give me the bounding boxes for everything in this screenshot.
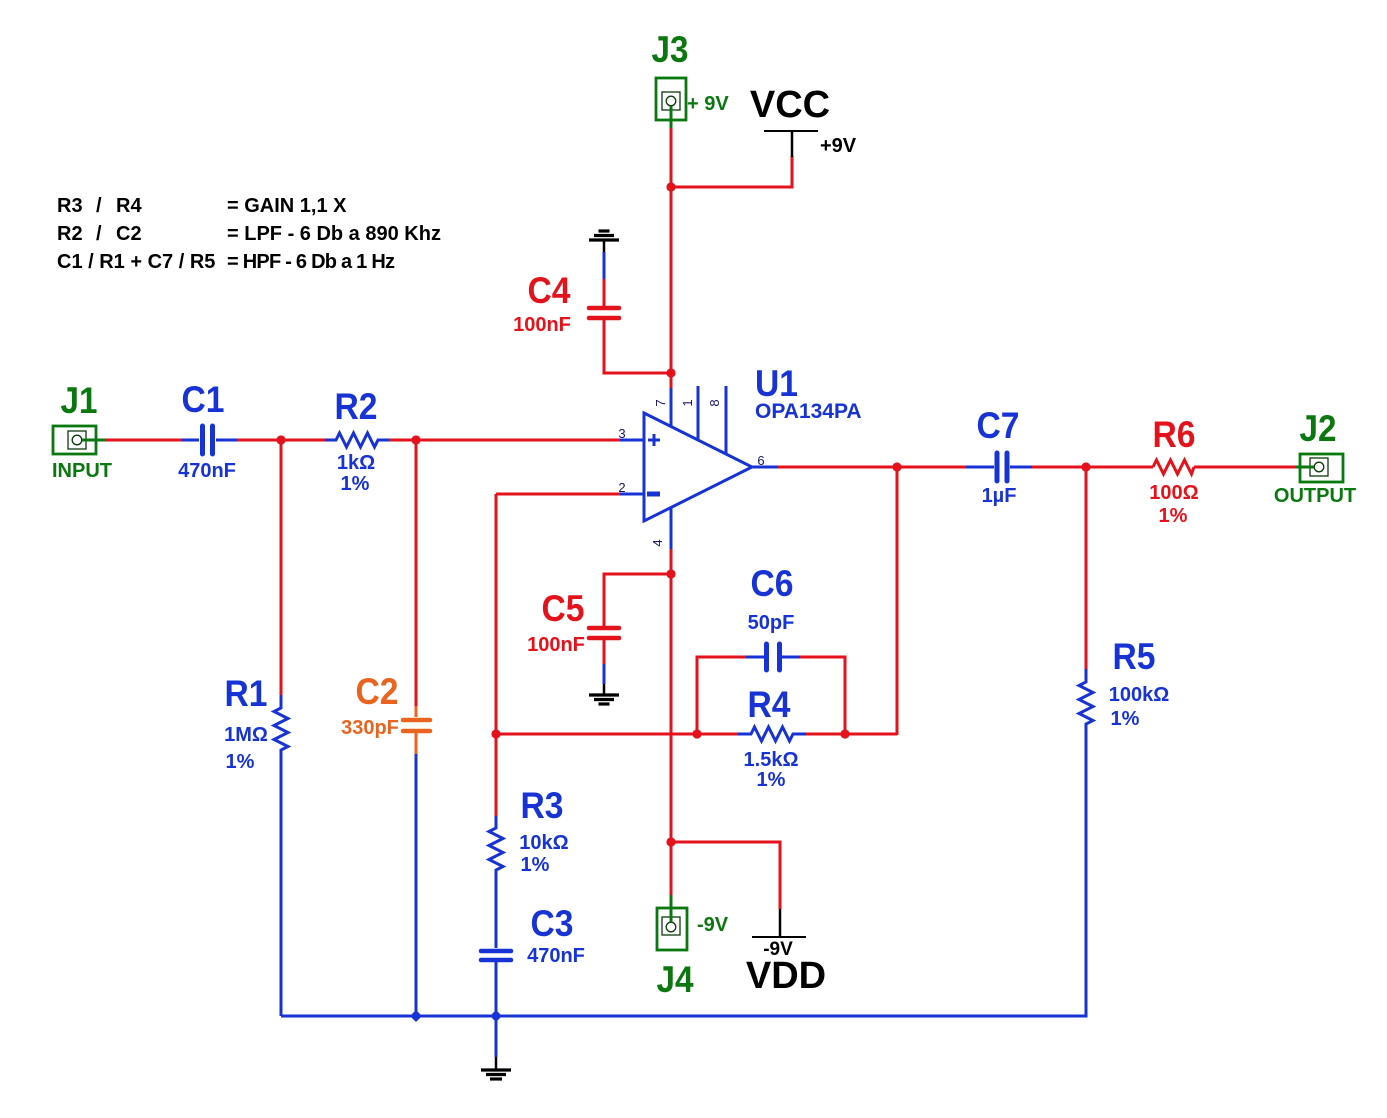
wire C6 loop left: [697, 657, 746, 734]
svg-text:1kΩ: 1kΩ: [337, 452, 375, 474]
svg-text:R4: R4: [748, 684, 791, 725]
wire VCC branch to +9V symbol: [671, 156, 792, 187]
svg-text:10kΩ: 10kΩ: [519, 832, 568, 854]
svg-text:3: 3: [618, 426, 625, 441]
svg-text:1%: 1%: [1159, 505, 1188, 527]
op-amp U1: [618, 363, 861, 549]
capacitor C7: [966, 405, 1032, 507]
wire C4 top stem: [603, 279, 606, 307]
wire C5 bottom stem: [603, 639, 606, 664]
svg-text:1: 1: [680, 399, 695, 406]
svg-text:C1 / R1 + C7 / R5: C1 / R1 + C7 / R5: [57, 251, 215, 273]
svg-text:2: 2: [618, 480, 625, 495]
wire R5 branch top: [1085, 467, 1088, 669]
resistor R5: [1079, 636, 1169, 736]
wire gnd-C4 blue segment: [603, 252, 606, 279]
svg-text:INPUT: INPUT: [52, 460, 112, 482]
wire VCC column: [670, 128, 673, 374]
svg-text:1µF: 1µF: [982, 485, 1017, 507]
svg-text:-9V: -9V: [697, 914, 729, 936]
wire R2 to op-amp pin3: [389, 439, 621, 442]
wire ground bottom bus: [281, 736, 1086, 1016]
svg-text:C7: C7: [977, 405, 1020, 446]
svg-text:1%: 1%: [521, 854, 550, 876]
svg-text:7: 7: [653, 399, 668, 406]
capacitor C3: [481, 903, 585, 1016]
svg-text:= GAIN 1,1 X: = GAIN 1,1 X: [227, 195, 347, 217]
junction dots red: [276, 182, 1090, 846]
svg-text:C5: C5: [542, 588, 585, 629]
svg-text:VDD: VDD: [746, 955, 826, 997]
svg-text:1%: 1%: [226, 751, 255, 773]
ground above C4: [589, 231, 671, 373]
svg-text:R4: R4: [116, 195, 142, 217]
wire op-amp output: [778, 466, 966, 469]
svg-text:R3: R3: [57, 195, 83, 217]
wire inverting input pin2: [496, 493, 620, 496]
svg-text:100kΩ: 100kΩ: [1109, 684, 1170, 706]
resistor R4: [738, 684, 806, 791]
svg-text:J1: J1: [61, 380, 98, 421]
power symbol VDD -9V: [746, 909, 826, 997]
wire feedback column: [495, 494, 498, 816]
svg-text:OUTPUT: OUTPUT: [1274, 485, 1356, 507]
svg-text:50pF: 50pF: [748, 612, 795, 634]
wire C1 to R2: [237, 439, 325, 442]
svg-text:J2: J2: [1300, 408, 1337, 449]
svg-text:C4: C4: [528, 270, 571, 311]
svg-text:1.5kΩ: 1.5kΩ: [744, 749, 799, 771]
wire C7 to R6: [1032, 466, 1153, 469]
svg-text:C3: C3: [531, 903, 574, 944]
svg-text:/: /: [96, 223, 102, 245]
wire C6 loop right: [800, 657, 845, 734]
wire pin7 red stub: [670, 373, 673, 388]
svg-text:VCC: VCC: [750, 84, 830, 126]
svg-text:100Ω: 100Ω: [1149, 482, 1198, 504]
connector J4: [657, 895, 729, 1000]
svg-text:C1: C1: [182, 379, 225, 420]
svg-text:4: 4: [650, 539, 665, 546]
svg-text:J4: J4: [657, 959, 694, 1000]
wire C5 connect: [604, 574, 671, 627]
wire feedback horizontal right: [806, 733, 897, 736]
svg-text:R1: R1: [225, 673, 268, 714]
capacitor C6: [746, 563, 800, 670]
svg-text:1%: 1%: [757, 769, 786, 791]
svg-text:330pF: 330pF: [341, 717, 399, 739]
svg-text:/: /: [96, 195, 102, 217]
svg-text:R2: R2: [57, 223, 83, 245]
svg-text:8: 8: [707, 399, 722, 406]
svg-text:R5: R5: [1113, 636, 1156, 677]
svg-text:J3: J3: [652, 29, 689, 70]
connector J3: [652, 29, 730, 128]
svg-text:1%: 1%: [1111, 708, 1140, 730]
wire VDD branch: [671, 842, 780, 909]
capacitor C4: [513, 270, 619, 336]
ground below C5: [589, 684, 619, 704]
wire R6 to J2: [1194, 466, 1296, 469]
svg-text:OPA134PA: OPA134PA: [755, 400, 862, 423]
svg-text:100nF: 100nF: [513, 314, 571, 336]
svg-text:C2: C2: [356, 671, 399, 712]
svg-text:+ 9V: + 9V: [687, 93, 729, 115]
wire pin4 to J4: [670, 549, 673, 895]
svg-text:C2: C2: [116, 223, 142, 245]
svg-text:1MΩ: 1MΩ: [224, 724, 268, 746]
svg-text:= HPF - 6 Db a 1 Hz: = HPF - 6 Db a 1 Hz: [227, 251, 395, 273]
connector J1: [52, 380, 112, 482]
svg-text:R6: R6: [1153, 414, 1196, 455]
annotation text block: [57, 195, 441, 273]
wire output node to feedback: [896, 467, 899, 735]
resistor R3: [489, 785, 569, 948]
resistor R2: [325, 386, 389, 495]
capacitor C2: [341, 671, 430, 1016]
svg-text:= LPF - 6 Db a 890 Khz: = LPF - 6 Db a 890 Khz: [227, 223, 441, 245]
wire C2 branch vertical: [415, 440, 418, 706]
wire C5-gnd blue segment: [603, 664, 606, 684]
wire R1 branch vertical: [280, 440, 283, 695]
ground bottom: [481, 1057, 511, 1079]
svg-text:6: 6: [757, 453, 764, 468]
capacitor C1: [178, 379, 237, 482]
wire bottom ground stem: [495, 1016, 498, 1057]
svg-text:C6: C6: [751, 563, 794, 604]
resistor R1: [224, 673, 288, 1016]
wire input J1 to C1: [104, 439, 182, 442]
svg-text:R2: R2: [335, 386, 378, 427]
svg-text:+9V: +9V: [820, 135, 857, 157]
svg-text:470nF: 470nF: [178, 460, 236, 482]
wire feedback horizontal left: [496, 733, 740, 736]
svg-text:1%: 1%: [341, 473, 370, 495]
resistor R6: [1149, 414, 1198, 527]
svg-text:470nF: 470nF: [527, 945, 585, 967]
capacitor C5: [527, 588, 619, 656]
power symbol VCC: [750, 84, 857, 157]
connector J2: [1274, 408, 1356, 507]
svg-text:U1: U1: [755, 363, 798, 404]
wire C4 bottom to VCC column: [604, 319, 671, 373]
svg-text:R3: R3: [521, 785, 564, 826]
junction dots blue: [410, 1010, 502, 1022]
svg-text:100nF: 100nF: [527, 634, 585, 656]
